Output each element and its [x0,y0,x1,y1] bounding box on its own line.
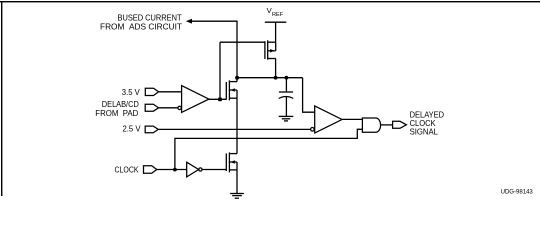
svg-text:UDG-98143: UDG-98143 [501,189,534,196]
label VREF [267,6,284,18]
inverter U3 [187,162,202,177]
wire clock feedforward to AND gate [175,129,363,169]
svg-text:BUSED CURRENT: BUSED CURRENT [118,14,182,23]
wire 3.5V to op-amp [159,91,182,93]
wire Q2 drain up to node A [236,78,238,82]
pin CLOCK [144,166,157,173]
comparator U2 [311,106,342,133]
transistor Q2 (NMOS pass) [226,80,237,100]
svg-text:2.5 V: 2.5 V [123,124,142,133]
svg-text:FROM ADS CIRCUIT: FROM ADS CIRCUIT [100,23,182,32]
AND gate U4 [362,118,380,132]
junction op-amp output / Q1 gate [218,98,222,102]
svg-text:SIGNAL: SIGNAL [410,128,439,137]
label BUSED CURRENT FROM ADS CIRCUIT [100,14,182,32]
label DELAYED CLOCK SIGNAL [410,111,445,137]
power rail VREF bar [265,21,287,23]
wire inverter output to Q3 gate [202,169,226,171]
wire comparator output to AND gate [342,118,363,120]
wire op-amp output to Q2 gate [209,98,227,100]
junction clock node [173,168,177,172]
pin DELAYED CLOCK SIGNAL output [393,121,407,128]
wire DELAB/CD to op-amp bubble [159,107,178,109]
svg-text:CLOCK: CLOCK [115,165,139,174]
wire Q2 source down to Q3 drain [236,98,238,153]
label DELAB/CD FROM PAD [95,100,139,118]
wire bused current vertical to node A [236,21,238,77]
pin 3.5V [145,88,158,95]
junction Q1 drain at node A [274,76,278,80]
ground capacitor [279,116,294,121]
svg-text:FROM PAD: FROM PAD [95,109,138,118]
wire AND output to pin [381,124,393,126]
junction node A [235,76,239,80]
transistor Q1 (PMOS mirror from VREF) [220,40,276,59]
svg-text:3.5 V: 3.5 V [122,88,141,97]
transistor Q3 (NMOS clock discharge) [226,152,237,172]
wire Q1 gate down to op-amp output [219,42,221,99]
junction capacitor at node A [285,76,289,80]
svg-text:DELAB/CD: DELAB/CD [102,100,139,109]
svg-text:REF: REF [272,12,284,18]
pin 2.5V [145,126,158,133]
op-amp U1 [178,86,209,113]
ground Q3 [230,194,244,199]
arrowhead bused current [186,19,192,24]
wire bused current horizontal [192,20,238,22]
pin DELAB/CD [145,104,158,111]
wire 2.5V to comparator bubble [158,128,310,130]
wire node A horizontal [237,77,303,79]
wire CLOCK to inverter [157,169,187,171]
wire node A to comparator input [303,78,315,113]
wire Q1 drain to node A [275,59,277,78]
wire Q3 source to ground [236,170,238,194]
capacitor C1 [279,78,293,117]
wire VREF to Q1 source [275,22,277,42]
